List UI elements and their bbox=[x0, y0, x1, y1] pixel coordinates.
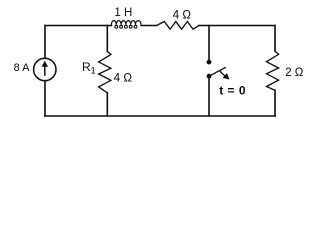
switch contact dot top bbox=[207, 60, 212, 65]
resistor 4 ohm top zigzag bbox=[157, 22, 199, 30]
svg-text:4 Ω: 4 Ω bbox=[173, 10, 192, 22]
current source I1 circle bbox=[34, 58, 56, 80]
switch motion arrow shaft bbox=[220, 71, 225, 76]
wire switch branch top bbox=[208, 26, 210, 60]
wire left lower bbox=[44, 81, 46, 116]
wire top left bbox=[45, 25, 112, 27]
svg-text:1 H: 1 H bbox=[114, 7, 132, 19]
switch contact dot bottom bbox=[207, 74, 212, 79]
wire bottom bbox=[45, 115, 275, 117]
resistor R1 zigzag bbox=[99, 51, 111, 92]
switch arrow head bbox=[223, 73, 230, 80]
svg-text:t = 0: t = 0 bbox=[219, 83, 246, 97]
svg-text:8 A: 8 A bbox=[14, 62, 31, 74]
switch blade bbox=[209, 67, 226, 76]
wire R1 branch bottom bbox=[106, 93, 108, 116]
inductor L1 coil bbox=[111, 21, 141, 25]
wire right upper bbox=[274, 26, 276, 52]
current source arrow bbox=[42, 60, 230, 80]
wire left upper bbox=[44, 26, 46, 59]
wire R1 branch top bbox=[106, 26, 108, 52]
svg-text:4 Ω: 4 Ω bbox=[114, 73, 133, 85]
wire switch branch bottom bbox=[208, 79, 210, 117]
wire top middle bbox=[141, 25, 157, 27]
inductor L1 bottom loops bbox=[115, 25, 118, 28]
svg-text:2 Ω: 2 Ω bbox=[285, 67, 304, 79]
wire top right bbox=[199, 25, 275, 27]
wire right lower bbox=[274, 90, 276, 116]
resistor 2 ohm zigzag bbox=[267, 51, 279, 90]
